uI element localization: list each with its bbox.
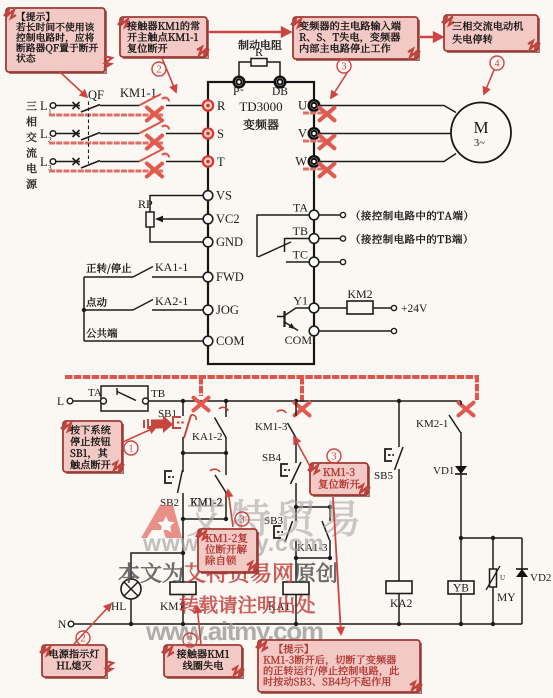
number 2b xyxy=(76,631,90,645)
de-energized mark at output xyxy=(303,139,332,142)
wire P- to resistor xyxy=(239,62,251,77)
number 3c xyxy=(235,512,249,526)
svg-text:SB1: SB1 xyxy=(158,408,177,420)
svg-text:3: 3 xyxy=(331,452,336,463)
svg-text:S: S xyxy=(217,127,224,141)
wire KM2 to +24V xyxy=(373,307,391,309)
svg-text:W: W xyxy=(295,155,307,169)
contactor KM1-1 open contact (red) xyxy=(139,122,169,134)
svg-text:GND: GND xyxy=(216,235,243,249)
svg-text:3: 3 xyxy=(239,515,244,526)
terminal COM xyxy=(203,336,213,346)
wire TB out xyxy=(319,238,340,240)
svg-text:JOG: JOG xyxy=(216,303,239,317)
svg-text:QF: QF xyxy=(88,88,104,102)
break X at KM1-3 node xyxy=(295,403,310,416)
svg-text:YB: YB xyxy=(453,583,469,595)
de-energized highlight bar (control L) xyxy=(65,375,477,379)
fat red arrow pressing SB1 xyxy=(151,415,173,433)
indicator lamp HL xyxy=(121,579,141,599)
terminal GND xyxy=(203,237,213,247)
break X at KM2-1 xyxy=(459,403,474,416)
wire V to motor xyxy=(320,133,452,135)
terminal TA xyxy=(309,210,319,220)
svg-text:V: V xyxy=(298,127,307,141)
terminal VS xyxy=(203,191,213,201)
svg-text:VC2: VC2 xyxy=(216,212,240,226)
bottom N wire xyxy=(74,623,522,625)
svg-text:HL: HL xyxy=(111,601,126,613)
number 3b xyxy=(327,449,341,463)
arrow callout7 to KM1-2 xyxy=(226,490,233,527)
label 公共端 xyxy=(86,328,117,338)
svg-text:2: 2 xyxy=(187,636,192,647)
callout 8 电源指示灯HL熄灭 xyxy=(42,645,106,677)
terminal P- xyxy=(234,77,244,87)
de-energized wire highlight (red bar) xyxy=(49,113,163,116)
wire to KA1 coil xyxy=(295,558,297,582)
arrow callout1 to QF xyxy=(60,72,87,97)
svg-text:+24V: +24V xyxy=(401,303,428,315)
arrow callout8 to HL xyxy=(74,604,111,644)
svg-text:KA1-2: KA1-2 xyxy=(192,431,223,443)
callout 2 KM1-1 复位断开 xyxy=(120,17,207,57)
relay box TA-TB xyxy=(101,386,148,411)
svg-text:U: U xyxy=(500,574,505,582)
svg-text:TB: TB xyxy=(293,224,308,238)
arrow callout3 to U xyxy=(331,73,347,98)
svg-text:M: M xyxy=(473,118,488,137)
wire parallel join 3 xyxy=(296,506,330,508)
red drop right end xyxy=(475,375,479,400)
red drop to KM1-3 node xyxy=(300,377,304,402)
control top wire xyxy=(149,400,462,402)
label 点动 xyxy=(86,297,106,307)
callout 7 KM1-2 复位断开解除自锁 xyxy=(198,529,257,572)
wire join right branch xyxy=(461,537,522,539)
wire to lamp HL xyxy=(131,553,183,579)
svg-text:L: L xyxy=(40,99,48,113)
svg-text:SB4: SB4 xyxy=(262,452,281,464)
wire phase xyxy=(56,161,80,163)
de-energized wire highlight (red bar) xyxy=(49,169,163,172)
svg-text:N: N xyxy=(58,619,67,631)
watermark logo A xyxy=(141,505,182,538)
breaker QF pole xyxy=(73,158,80,165)
svg-text:KA1-1: KA1-1 xyxy=(155,260,188,274)
svg-text:COM: COM xyxy=(285,333,313,347)
wire W to motor xyxy=(320,154,457,162)
number 4 xyxy=(490,56,504,70)
coil KA2 xyxy=(386,581,412,594)
svg-text:FWD: FWD xyxy=(216,270,244,284)
arrow callout6 to KM1-3 xyxy=(294,437,312,470)
break X at SB1 xyxy=(194,398,209,411)
RP wiper arrow to VC2 xyxy=(158,218,203,220)
transistor Y1 output xyxy=(283,311,285,327)
arrow callout2 to KM1-1 xyxy=(162,58,177,92)
wire TA out xyxy=(319,214,340,216)
contactor KM1-1 open contact (red) xyxy=(139,150,169,162)
number 2c xyxy=(183,633,197,647)
svg-text:KM2-1: KM2-1 xyxy=(416,418,448,430)
de-energized wire highlight (red bar) xyxy=(49,141,163,144)
callout 4 电动机失电停转 xyxy=(444,15,538,51)
breaker QF pole xyxy=(73,102,80,109)
svg-text:L: L xyxy=(57,396,64,408)
svg-text:TA: TA xyxy=(293,201,308,215)
left bus wire xyxy=(83,277,85,341)
label 接控制电路中的TB端 xyxy=(357,234,467,244)
coil KM1 xyxy=(170,582,196,595)
coil KA1 xyxy=(283,582,309,595)
watermark 转载请注明出处 xyxy=(180,596,315,614)
solenoid YB xyxy=(460,538,462,581)
svg-text:SB5: SB5 xyxy=(374,470,393,482)
wire phase xyxy=(56,105,80,107)
svg-text:-: - xyxy=(240,84,244,96)
svg-text:KM2: KM2 xyxy=(347,287,372,301)
inverter TD3000 box xyxy=(208,82,314,364)
contactor aux contact KM1-2 xyxy=(191,498,222,506)
breaker QF linkage dashed xyxy=(88,102,90,164)
changeover contact in TA-TB box xyxy=(116,388,118,395)
terminal U xyxy=(309,100,319,110)
svg-text:3: 3 xyxy=(341,62,346,73)
terminal VC2 xyxy=(203,214,213,224)
wire resistor to DB xyxy=(267,62,280,77)
terminal JOG xyxy=(203,305,213,315)
svg-text:COM: COM xyxy=(216,334,244,348)
number 3 xyxy=(337,59,351,73)
wire to inverter xyxy=(166,133,203,135)
wire common xyxy=(84,340,203,342)
svg-text:TC: TC xyxy=(293,248,308,262)
arrow callout4 to motor xyxy=(484,70,495,94)
wire parallel join 1 xyxy=(183,452,226,454)
number 2 xyxy=(152,62,166,76)
callout 9 接触器KM1线圈失电 xyxy=(164,645,242,677)
wire parallel join 2 xyxy=(183,518,226,520)
wire TC out xyxy=(319,261,340,263)
svg-text:VD1: VD1 xyxy=(433,465,454,477)
varistor MY xyxy=(492,538,494,569)
label 接控制电路中的TA端 xyxy=(357,211,467,221)
braking resistor label 制动电阻 xyxy=(238,40,281,50)
terminal COM xyxy=(309,326,319,336)
red curl at KA1-2 xyxy=(219,407,228,411)
break mark X xyxy=(147,108,162,121)
wire to inverter xyxy=(166,161,203,163)
arrow callout9 to KM1 xyxy=(195,606,202,644)
callout 6 KM1-3 复位断开 xyxy=(310,463,368,495)
svg-text:4: 4 xyxy=(494,59,500,70)
label three-phase source 三相交流电源 xyxy=(26,101,36,110)
de-energized mark at output xyxy=(303,167,332,170)
callout 3 R S T 失电 xyxy=(293,17,418,59)
internal relay contact TA/TB/TC xyxy=(257,215,309,257)
watermark 艾特贸易 xyxy=(188,499,358,536)
svg-text:L: L xyxy=(40,127,48,141)
long red arrow to bottom note xyxy=(333,497,344,634)
wire parallel join 4 xyxy=(296,557,330,559)
break mark X xyxy=(147,136,162,149)
svg-text:VS: VS xyxy=(216,189,232,203)
svg-text:Y1: Y1 xyxy=(293,294,308,308)
arrow callout2 to callout3 xyxy=(209,28,290,36)
svg-text:P: P xyxy=(233,86,239,98)
terminal TB xyxy=(309,234,319,244)
de-energized mark at output xyxy=(303,111,332,114)
callout 10 提示 bottom xyxy=(258,640,420,692)
red drop to SB1 node xyxy=(199,377,203,396)
wire L to TA xyxy=(73,400,101,402)
svg-text:R: R xyxy=(217,99,226,113)
terminal DB xyxy=(275,77,285,87)
svg-text:2: 2 xyxy=(156,65,161,76)
svg-text:MY: MY xyxy=(497,592,516,604)
svg-text:U: U xyxy=(298,99,307,113)
svg-text:KA2-1: KA2-1 xyxy=(155,294,188,308)
red curl at KM1-3 xyxy=(277,410,286,413)
callout 5 按下SB1 xyxy=(63,421,122,472)
svg-text:DB: DB xyxy=(272,86,288,98)
breaker QF pole xyxy=(73,130,80,137)
svg-text:3~: 3~ xyxy=(474,138,485,149)
wire to inverter xyxy=(166,105,203,107)
svg-text:R: R xyxy=(255,45,263,59)
svg-text:VD2: VD2 xyxy=(530,572,551,584)
wire phase xyxy=(56,133,80,135)
label 正转/停止 xyxy=(86,263,131,274)
terminal R (red) xyxy=(203,100,213,110)
svg-text:1: 1 xyxy=(128,444,133,455)
terminal FWD xyxy=(203,272,213,282)
svg-text:TA: TA xyxy=(88,387,102,399)
diode VD2 xyxy=(521,538,523,570)
wire to KM1 coil xyxy=(182,519,184,582)
terminal W xyxy=(309,156,319,166)
motor M 3~ xyxy=(451,103,511,163)
contactor KM1-1 open contact (red) xyxy=(139,94,169,106)
terminal T (red) xyxy=(203,156,213,166)
svg-text:KA2: KA2 xyxy=(390,598,413,610)
arrow callout5 to SB1 xyxy=(123,427,156,442)
number 1 xyxy=(124,441,138,455)
wire COM out xyxy=(319,330,391,332)
terminal S (red) xyxy=(203,128,213,138)
break mark X xyxy=(147,164,162,177)
svg-text:T: T xyxy=(217,155,225,169)
terminal TC xyxy=(309,257,319,267)
svg-text:RP: RP xyxy=(138,197,153,211)
watermark 本文为艾特贸易网原创 xyxy=(119,563,183,583)
svg-text:L: L xyxy=(40,155,48,169)
svg-text:TB: TB xyxy=(151,388,165,400)
wire Y1 to KM2 coil xyxy=(319,307,347,309)
terminal Y1 xyxy=(309,303,319,313)
svg-text:KM1-3: KM1-3 xyxy=(255,421,288,433)
arrow callout3 to callout4 xyxy=(420,33,442,41)
red curl at KM1-2 xyxy=(210,469,220,472)
callout 1 提示 QF xyxy=(6,8,105,72)
terminal V xyxy=(309,128,319,138)
wire U to motor xyxy=(320,106,457,113)
svg-text:TD3000: TD3000 xyxy=(239,99,282,114)
